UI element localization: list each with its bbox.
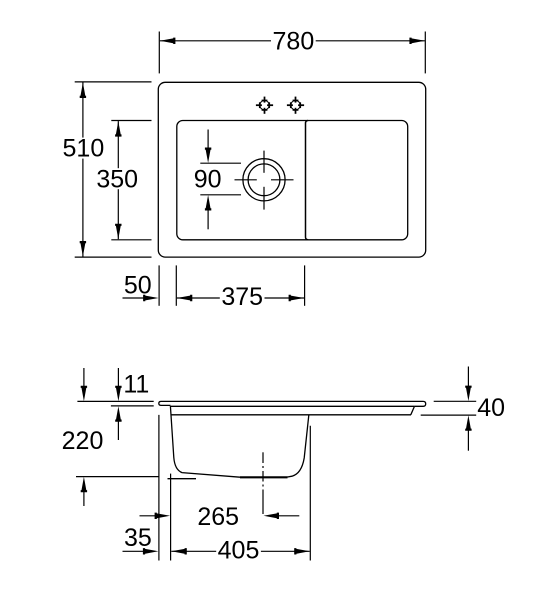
svg-text:265: 265 [197, 503, 239, 531]
svg-text:50: 50 [124, 271, 152, 299]
svg-text:40: 40 [477, 394, 505, 422]
svg-text:35: 35 [124, 524, 152, 552]
svg-text:220: 220 [62, 427, 104, 455]
svg-text:510: 510 [63, 135, 105, 163]
svg-text:405: 405 [218, 537, 260, 565]
svg-text:90: 90 [194, 165, 222, 193]
svg-text:350: 350 [96, 165, 138, 193]
svg-text:780: 780 [273, 28, 315, 56]
svg-text:375: 375 [221, 283, 263, 311]
svg-text:11: 11 [123, 371, 149, 399]
